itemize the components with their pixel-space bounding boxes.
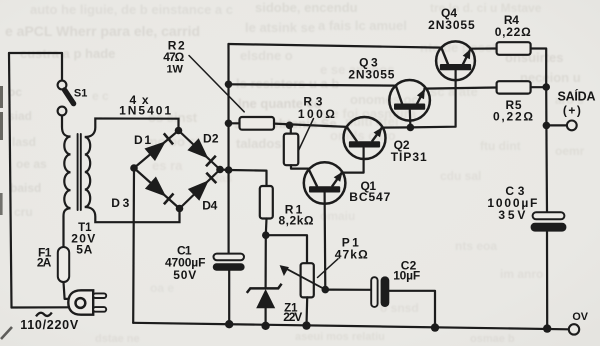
wire R3 top lead	[290, 125, 292, 133]
svg-text:sidobe, encendu: sidobe, encendu	[255, 0, 358, 15]
fuse F1	[58, 247, 69, 282]
node R2-R3 junction	[286, 122, 294, 130]
svg-text:elsdne o: elsdne o	[240, 48, 293, 63]
transformer T1 core	[77, 134, 79, 210]
transistor Q3	[389, 80, 430, 121]
capacitor C1 plate+	[214, 254, 245, 261]
resistor R5	[497, 81, 531, 93]
node C3 rail junction	[543, 324, 551, 332]
wire C2 to rail	[389, 291, 435, 328]
terminal SAIDA	[567, 121, 577, 131]
svg-text:1W: 1W	[166, 64, 183, 76]
mains plug prong 1	[93, 293, 106, 298]
wire fuse to plug	[64, 282, 71, 299]
mains plug body	[68, 290, 93, 314]
svg-text:S1: S1	[74, 87, 87, 99]
resistor R4	[497, 42, 531, 55]
terminal 0V	[569, 324, 579, 334]
svg-text:10µF: 10µF	[393, 269, 420, 283]
mains plug circle	[76, 298, 86, 308]
svg-text:22V: 22V	[283, 310, 302, 324]
wire R1 bottom lead	[265, 219, 268, 236]
svg-text:ftu dint: ftu dint	[480, 139, 521, 153]
zener Z1	[247, 284, 282, 293]
node bus rail tap	[225, 320, 233, 328]
svg-text:le atsink se: le atsink se	[245, 20, 315, 35]
wire bus to R1	[229, 170, 267, 186]
potentiometer P1 body	[301, 263, 314, 297]
svg-text:es ra: es ra	[152, 158, 183, 173]
resistor R3	[284, 134, 299, 166]
wire secondary bottom lead	[85, 207, 180, 222]
wire output bus to C3	[545, 125, 548, 212]
wire R5 to output bus	[531, 86, 547, 88]
pointer P1	[318, 259, 339, 278]
svg-text:baisd: baisd	[10, 181, 41, 195]
svg-text:35V: 35V	[498, 208, 525, 222]
wire Z1 top lead	[265, 235, 267, 288]
pointer R3	[299, 119, 314, 151]
svg-text:5A: 5A	[76, 243, 92, 257]
diode D2	[179, 131, 221, 170]
wire Q2 emitter to Q3 base	[382, 126, 411, 128]
svg-text:2A: 2A	[37, 256, 52, 270]
transistor Q2	[344, 117, 386, 159]
svg-text:im anro: im anro	[500, 267, 543, 281]
wire junction to C2	[325, 289, 371, 291]
wire top rail to Q4	[229, 44, 442, 48]
svg-text:OV: OV	[572, 311, 588, 323]
svg-text:cdu sal: cdu sal	[440, 169, 481, 183]
svg-text:50V: 50V	[173, 268, 196, 282]
svg-text:47Ω: 47Ω	[163, 50, 184, 64]
svg-text:siad: siad	[8, 109, 32, 123]
transformer T1 primary winding	[64, 137, 70, 209]
wire main bus lower	[228, 271, 230, 325]
wire S1 to primary	[62, 115, 71, 137]
svg-text:(+): (+)	[563, 103, 581, 117]
transformer T1 secondary winding	[85, 137, 90, 207]
svg-text:sc a ate: sc a ate	[430, 84, 478, 99]
diode D4	[180, 170, 221, 209]
transistor Q1	[304, 162, 346, 204]
svg-text:100Ω: 100Ω	[298, 107, 335, 121]
svg-text:2N3055: 2N3055	[348, 68, 394, 82]
wire Q4 base lead	[410, 70, 455, 128]
svg-text:BC547: BC547	[349, 190, 390, 204]
transistor Q4	[436, 41, 475, 80]
wire primary to fuse	[64, 208, 71, 247]
svg-text:TIP31: TIP31	[391, 150, 427, 164]
svg-text:8,2kΩ: 8,2kΩ	[279, 214, 314, 228]
diode D1	[134, 131, 179, 169]
svg-text:osmae b: osmae b	[470, 333, 515, 345]
svg-text:e c: e c	[92, 89, 109, 103]
AC tilde symbol	[36, 313, 52, 317]
wire bus to Q3 collector	[229, 84, 396, 85]
capacitor C3 plate+	[533, 212, 565, 219]
node C2 rail junction	[431, 323, 439, 331]
capacitor C3 plate-	[531, 223, 567, 232]
svg-text:2N3055: 2N3055	[428, 18, 475, 32]
svg-text:D2: D2	[203, 132, 219, 146]
svg-text:110/220V: 110/220V	[20, 318, 79, 332]
wire S1 upper lead	[61, 53, 63, 82]
wire bottom-left to plug	[12, 306, 71, 308]
wire top-left horizontal	[9, 52, 62, 54]
svg-text:oa e: oa e	[150, 281, 174, 295]
node P1 rail junction	[302, 321, 310, 329]
wire R3 to Q1 collector	[291, 165, 308, 168]
capacitor C2 plate left	[371, 277, 377, 307]
wire Q4 emitter to R4	[470, 47, 497, 49]
wire P1 bottom lead	[305, 297, 308, 325]
pointer R2	[189, 56, 244, 112]
svg-text:dstae ne: dstae ne	[95, 333, 140, 345]
capacitor C1 plate-	[213, 263, 245, 270]
svg-text:lasd: lasd	[12, 135, 36, 149]
node R1-Z1-P1 junction	[262, 231, 270, 239]
wire left rail vertical	[9, 53, 12, 308]
wire C3 to rail	[546, 232, 548, 329]
node Q3 base junction	[407, 124, 415, 132]
node bus R2 tap	[225, 120, 233, 128]
node bus Q3 tap	[225, 81, 233, 89]
wire bridge right to bus	[220, 168, 229, 171]
wire to SAIDA terminal	[546, 124, 567, 126]
svg-text:SAÍDA: SAÍDA	[558, 89, 596, 104]
svg-text:0,22Ω: 0,22Ω	[493, 109, 533, 123]
wire secondary top lead	[85, 119, 179, 138]
svg-text:cru: cru	[14, 205, 33, 219]
node bridge right	[216, 166, 224, 174]
resistor R2	[240, 117, 275, 130]
wire junction to P1 top	[266, 235, 307, 263]
wire Q3 emitter to R5	[424, 88, 496, 89]
wire main bus upper	[227, 44, 229, 254]
svg-text:a fais lc amuel: a fais lc amuel	[318, 18, 407, 33]
wire output bus down	[545, 87, 547, 125]
wire Q1 emitter to Q2 base	[342, 148, 364, 173]
wire Q3 base lead	[409, 110, 412, 128]
wire R2 to Q2 collector	[274, 124, 347, 127]
node bus bridge tap	[225, 166, 233, 174]
node Q1 base P1 C2 junction	[322, 286, 330, 294]
svg-text:aseui mos relatiu: aseui mos relatiu	[295, 331, 385, 343]
wire 0V rail	[133, 323, 568, 330]
wire R4 to output bus	[531, 49, 547, 88]
svg-text:47kΩ: 47kΩ	[335, 247, 368, 261]
potentiometer P1 wiper arrow	[284, 267, 326, 289]
capacitor C2 plate right	[381, 276, 390, 307]
svg-text:D4: D4	[202, 199, 217, 213]
wire bus to R2	[229, 122, 240, 124]
node bridge bottom	[176, 205, 184, 213]
node R5 output junction	[542, 83, 550, 91]
node SAIDA junction	[543, 122, 551, 130]
wire bridge left to 0V rail	[132, 168, 135, 323]
svg-text:0,22Ω: 0,22Ω	[495, 25, 531, 39]
node bridge left	[130, 164, 138, 172]
wire Q1 base lead	[324, 193, 327, 290]
svg-text:e aPCL Wherr para ele, carrid: e aPCL Wherr para ele, carrid	[5, 23, 200, 39]
svg-text:oemr: oemr	[555, 144, 585, 158]
svg-text:oe as: oe as	[16, 157, 47, 171]
svg-text:nts eoa: nts eoa	[455, 239, 497, 253]
switch S1	[58, 81, 67, 90]
svg-text:D1: D1	[134, 133, 151, 147]
svg-text:auto he liguie, de b einstance: auto he liguie, de b einstance a c	[30, 2, 233, 17]
resistor R1	[260, 186, 273, 219]
node Z1 rail junction	[261, 322, 269, 330]
mains plug prong 2	[93, 307, 106, 312]
diode D3	[134, 168, 180, 209]
node bridge top	[175, 127, 183, 135]
